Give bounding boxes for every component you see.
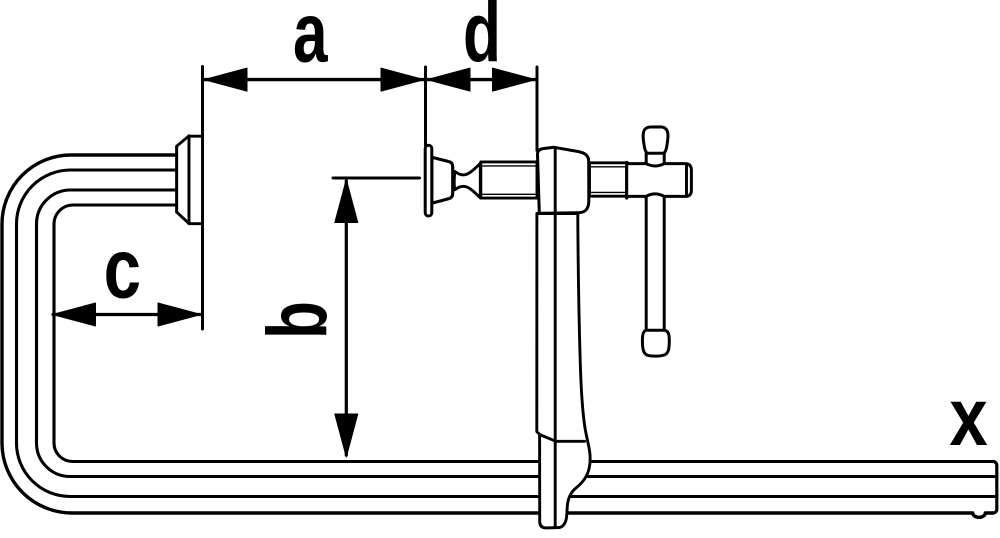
svg-text:d: d — [463, 0, 501, 80]
shaft crest line top — [591, 166, 626, 168]
swivel pad rim disc — [425, 145, 432, 216]
arrowhead b top — [335, 180, 358, 223]
wire frame line 2 — [17, 170, 995, 497]
wire frame inner contour (arm bottom / rail top) — [54, 205, 994, 462]
wire frame outer contour line (arm top / left outer / rail bottom) — [2, 155, 993, 517]
fixed jaw pressure plate — [189, 136, 203, 224]
spindle end cap line — [625, 163, 628, 199]
extension line arm face (right of dimension d) — [536, 67, 539, 151]
rail right end cap — [992, 462, 997, 514]
thread crest line bottom — [482, 193, 536, 195]
T-handle rod — [646, 152, 664, 332]
arrowhead c left — [53, 303, 96, 326]
arrowhead c right — [158, 303, 201, 326]
arrowhead d left — [427, 68, 470, 91]
T-handle boss — [627, 164, 692, 197]
housing ridge line — [554, 148, 557, 213]
reference line b top (to pad) — [333, 177, 420, 180]
spindle neck — [454, 163, 480, 197]
svg-text:a: a — [293, 0, 328, 80]
T-handle top knob — [643, 127, 668, 153]
sliding arm foot chamfer line — [540, 435, 585, 442]
thread crest line top — [482, 165, 536, 167]
wire frame line 3 — [37, 190, 995, 477]
extension line jaw face (left of dimension a) — [201, 67, 204, 330]
T-handle bottom knob — [642, 330, 669, 356]
sliding arm center ridge — [554, 213, 557, 527]
arrowhead a right — [381, 68, 424, 91]
dimension line a-d — [204, 78, 536, 81]
extension line pad face (between a and d) — [424, 67, 427, 146]
boss end inner line — [685, 165, 688, 196]
sliding arm head housing — [537, 147, 588, 213]
dimension line c — [53, 313, 201, 316]
swivel pad cone — [432, 157, 453, 203]
dimension line b — [345, 181, 348, 455]
threaded spindle body — [481, 162, 537, 198]
svg-text:c: c — [104, 223, 141, 317]
svg-text:x: x — [949, 371, 987, 463]
arrowhead b bottom — [335, 414, 358, 457]
shaft crest line bottom — [591, 191, 626, 193]
sliding arm with foot — [537, 214, 590, 528]
fixed arm end face — [175, 146, 178, 212]
arrowhead a left — [204, 68, 247, 91]
spindle shaft right of housing — [590, 163, 628, 196]
arrowhead d right — [493, 68, 536, 91]
fixed jaw flare cone — [177, 136, 189, 224]
svg-text:b: b — [250, 301, 344, 339]
